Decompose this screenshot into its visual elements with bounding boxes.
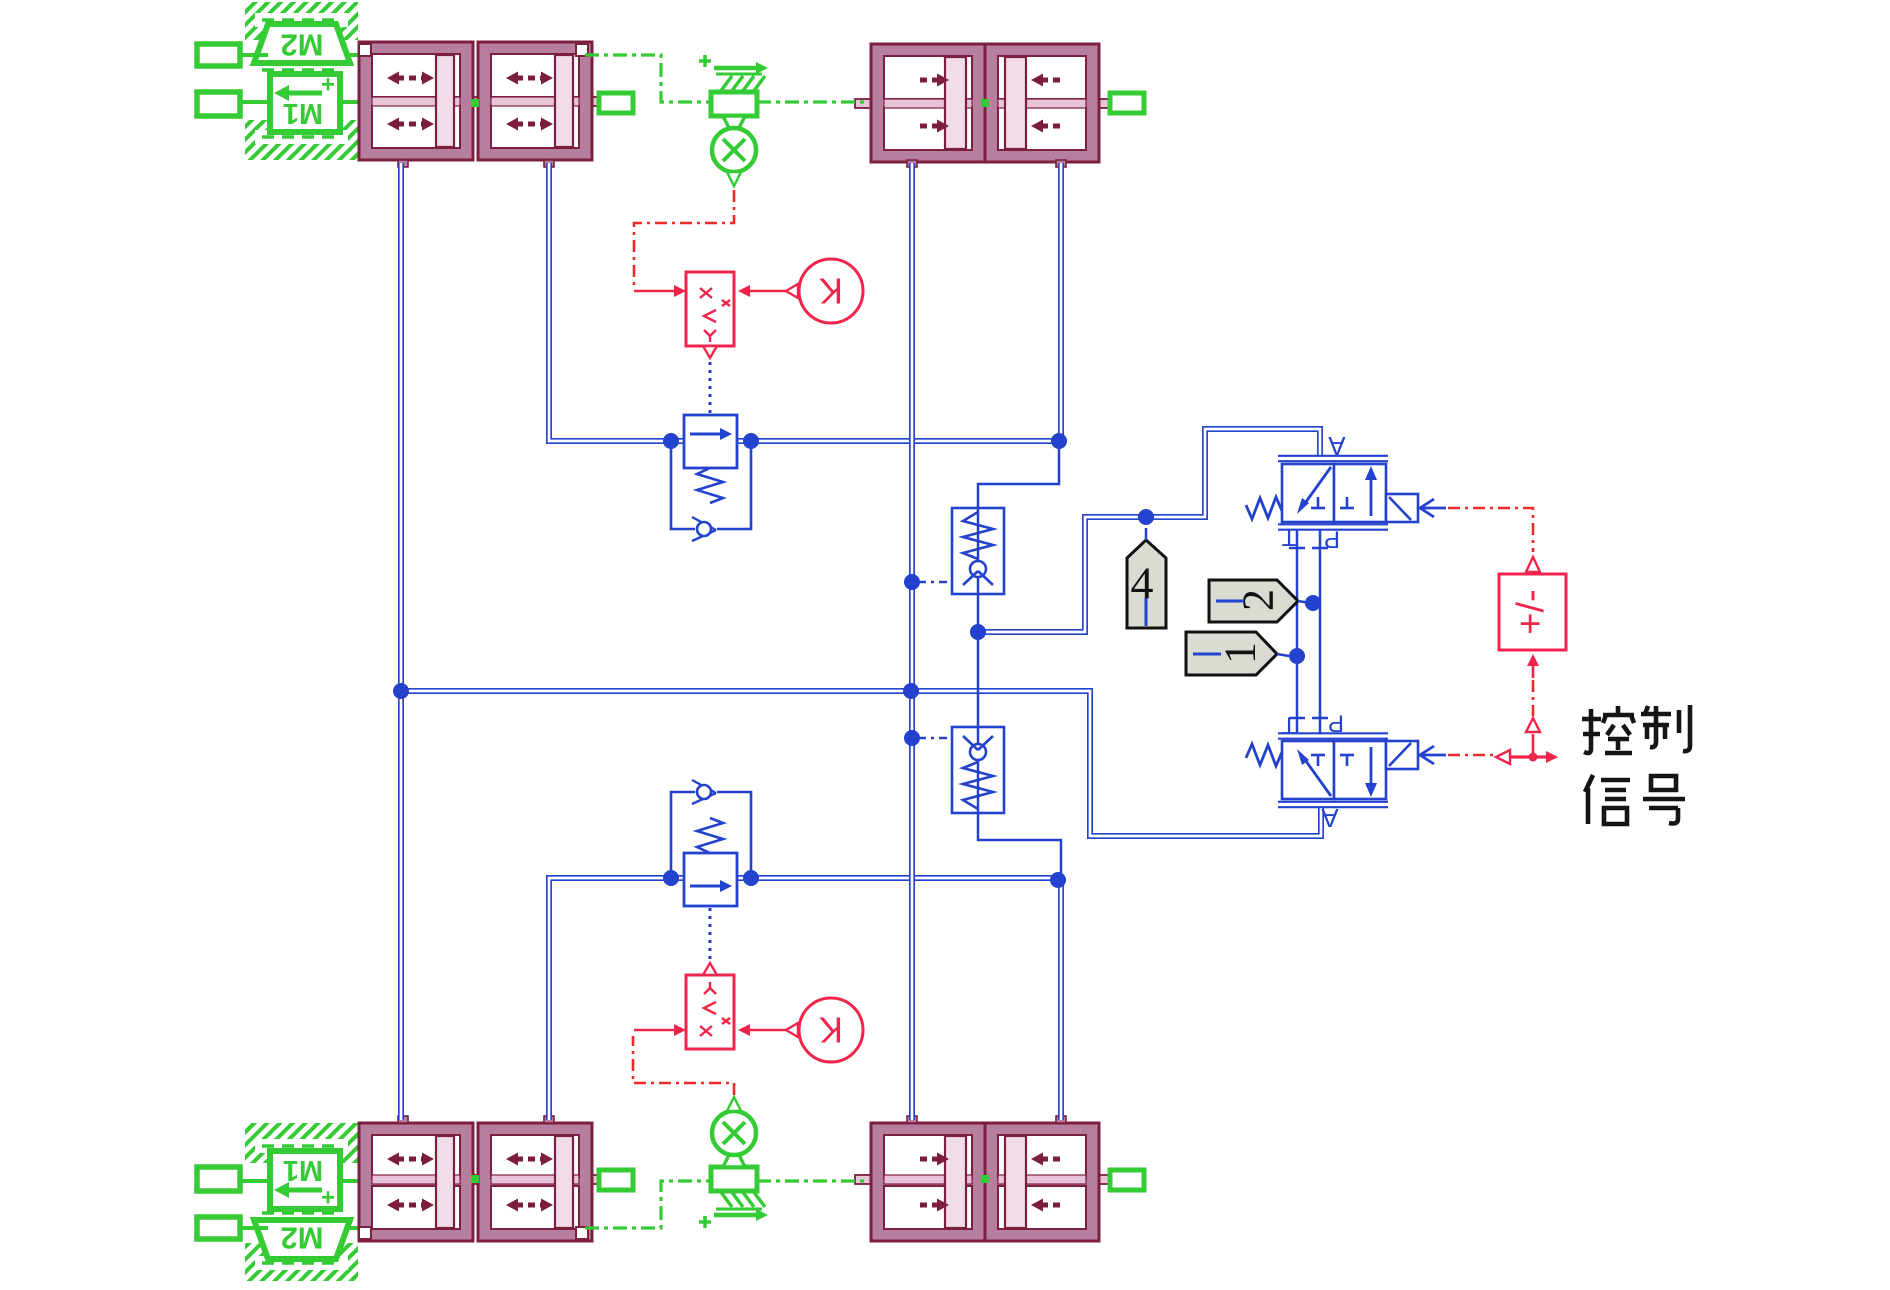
piston	[436, 55, 454, 147]
flow arrows	[397, 1203, 424, 1208]
pilot line (lower)	[918, 737, 950, 740]
svg-text:+: +	[321, 72, 335, 99]
junction relief-top L	[663, 433, 679, 449]
transducer body	[711, 92, 757, 116]
svg-text:M2: M2	[280, 1221, 323, 1256]
wire: main center line to bottom valve A	[401, 691, 1321, 836]
check valve (bottom bypass)	[692, 780, 716, 793]
svg-text:1: 1	[1216, 642, 1265, 664]
piston rod	[365, 1175, 600, 1184]
junction pilot-bottom	[904, 730, 920, 746]
piston	[436, 1136, 454, 1228]
svg-text:K: K	[819, 1010, 843, 1051]
tag 2	[1209, 580, 1298, 622]
junction tag1	[1289, 648, 1305, 664]
check ball (lower)	[970, 744, 986, 760]
junction pilot-top	[904, 574, 920, 590]
check ball (upper)	[970, 561, 986, 577]
flow arrow	[920, 1203, 939, 1208]
port bars	[1289, 547, 1305, 550]
mass block M1/M2 lower-left	[245, 1243, 358, 1281]
cylinder body	[478, 42, 592, 160]
flow arrow	[920, 124, 939, 129]
wire: TR right cylinder down to relief line dot	[1058, 163, 1064, 441]
signal arrow into block bottom	[1532, 666, 1535, 678]
piston rod	[855, 1175, 1112, 1184]
pilot check component (lower) body	[952, 727, 1004, 813]
wire: T rail between valves	[1296, 529, 1299, 734]
pilot dotted line (top)	[709, 354, 712, 413]
wire: bottom relief line left + BL right cylinder	[549, 878, 671, 1120]
pilot line (upper)	[918, 581, 950, 584]
flow arrows	[516, 1203, 543, 1208]
spring (upper pilot check)	[963, 512, 993, 559]
flow arrow	[1041, 78, 1060, 83]
cylinder port stubs	[398, 160, 408, 167]
velocity source/transducer (top)	[699, 59, 711, 63]
wire: BR right cylinder up to relief line dot	[1058, 880, 1064, 1120]
check valve bypass loop (bottom relief)	[671, 792, 695, 878]
K gain link (bottom)	[748, 1029, 786, 1032]
mechanical link (top, cylinder port to transducer)	[585, 55, 709, 102]
cylinder body	[985, 44, 1099, 162]
piston	[945, 57, 966, 149]
port box	[197, 44, 240, 66]
junction relief-bot L	[663, 870, 679, 886]
relief valve (top) body	[684, 415, 737, 468]
valve spring (top)	[1246, 497, 1282, 519]
mechanical link (bottom, transducer to right pair rod)	[757, 1179, 869, 1182]
svg-text:4: 4	[1131, 558, 1154, 609]
svg-text:+/-: +/-	[1510, 589, 1552, 634]
mechanical link (top, transducer to right pair rod)	[757, 100, 869, 103]
wire: chain through pilot check components	[978, 441, 1061, 880]
wire: TR left cylinder column x912	[909, 163, 915, 1120]
pilot check component (upper) body	[952, 508, 1004, 594]
solenoid input arrow (top)	[1422, 507, 1446, 510]
valve spring (bottom)	[1246, 744, 1282, 766]
signal converter block (bottom)	[686, 975, 734, 1049]
flow arrows	[516, 1157, 543, 1162]
control signal tee	[1508, 755, 1556, 758]
valve interior arrows (bottom)	[1303, 757, 1331, 796]
velocity source/transducer (bottom)	[699, 1220, 711, 1224]
rod port box upper-left	[599, 93, 633, 113]
wire: relief left to valve	[671, 438, 684, 444]
mass block M1/M2 upper-left	[245, 2, 358, 40]
tag 4	[1127, 540, 1166, 628]
junction relief-top R	[743, 433, 759, 449]
cylinder body	[359, 42, 473, 160]
K gain circle (top)	[799, 259, 863, 323]
wire: P rail between valves	[1319, 529, 1322, 734]
junction tag2	[1305, 595, 1321, 611]
piston	[1005, 1136, 1026, 1228]
X circle	[712, 1111, 756, 1155]
flow arrow	[920, 1157, 939, 1162]
check valve (top bypass)	[692, 517, 716, 530]
tag 1	[1186, 632, 1277, 675]
relief valve (bottom) spring	[697, 818, 723, 853]
pilot dotted line (bottom)	[709, 908, 712, 967]
flow arrows	[516, 76, 543, 81]
port box	[197, 92, 240, 116]
svg-text:M1: M1	[283, 97, 323, 129]
piston rod	[365, 97, 600, 106]
solenoid input arrow (bottom)	[1422, 754, 1446, 757]
svg-text:K: K	[819, 271, 843, 312]
signal line (tee to bottom solenoid)	[1448, 754, 1494, 757]
wire: bottom relief line right section	[737, 875, 1058, 881]
junction relief-bot R	[743, 870, 759, 886]
flow arrow	[1041, 1157, 1060, 1162]
3/2 directional valve (top) body	[1282, 464, 1334, 522]
flow arrow	[1041, 124, 1060, 129]
K gain link (top)	[748, 290, 786, 293]
solenoid (top)	[1386, 494, 1418, 522]
solenoid (bottom)	[1386, 741, 1418, 769]
signal line (top solenoid to +/- block)	[1448, 508, 1533, 552]
cylinder corner port (lower-left pair, to mass)	[359, 1227, 371, 1239]
flow arrow	[920, 78, 939, 83]
flow arrows	[397, 122, 424, 127]
flow arrows	[397, 76, 424, 81]
signal converter block (top)	[686, 272, 734, 346]
svg-text:+: +	[321, 1185, 335, 1212]
flow arrow	[1041, 1203, 1060, 1208]
junction top-right	[1051, 433, 1067, 449]
signal line (top X to converter)	[634, 190, 734, 285]
rod link ticks	[471, 99, 479, 107]
svg-text:P: P	[1328, 710, 1344, 737]
wire: top relief line right section	[737, 438, 1059, 444]
svg-text:A: A	[1321, 803, 1339, 833]
cylinder body	[871, 1123, 985, 1241]
rod port box upper-right	[1110, 93, 1144, 113]
svg-text:T: T	[1281, 712, 1296, 739]
cylinder body	[478, 1123, 592, 1241]
spring (lower pilot check)	[963, 762, 993, 809]
X circle	[712, 128, 756, 172]
junction main/x912	[903, 683, 919, 699]
flow arrows	[397, 1157, 424, 1162]
cylinder body	[985, 1123, 1099, 1241]
mechanical link (bottom, cylinder port to transducer)	[585, 1181, 709, 1228]
svg-text:T: T	[1281, 524, 1296, 551]
cylinder corner port (upper-left pair, to mass)	[359, 44, 371, 56]
piston	[1005, 57, 1026, 149]
signal line (bottom X to converter)	[633, 1036, 734, 1095]
input arrow left (bottom)	[634, 1029, 674, 1032]
valve rails (bottom)	[1278, 801, 1388, 809]
wire: TL right cylinder down to top relief line	[549, 163, 671, 441]
cylinder body	[359, 1123, 473, 1241]
piston	[555, 1136, 573, 1228]
rod port box lower-left	[599, 1170, 633, 1190]
signal line (tee to block)	[1532, 680, 1535, 716]
flow arrows	[516, 122, 543, 127]
svg-text:M2: M2	[280, 28, 323, 63]
caption: control signal (Chinese)	[1582, 705, 1690, 824]
piston	[555, 55, 573, 147]
relief valve (top) spring	[697, 468, 723, 503]
cylinder corner port (upper-left pair, right cylinder)	[576, 44, 588, 56]
port box	[197, 1167, 240, 1191]
transducer body	[711, 1167, 757, 1191]
wire: branch between accumulators to top valve A	[985, 429, 1320, 632]
+/- inverter block	[1526, 557, 1540, 572]
piston	[945, 1136, 966, 1228]
valve interior arrows (top)	[1303, 467, 1331, 506]
wire: left column x401	[398, 163, 404, 1120]
rod port box lower-right	[1110, 1170, 1144, 1190]
svg-text:A: A	[1328, 431, 1346, 461]
piston rod	[855, 99, 1112, 108]
input arrow left (top)	[634, 290, 674, 293]
junction left/main	[393, 683, 409, 699]
junction inter-accumulator	[970, 624, 986, 640]
svg-text:M1: M1	[283, 1154, 323, 1186]
wire: relief valve bottom left connect	[671, 875, 684, 881]
3/2 directional valve (bottom) body	[1282, 741, 1334, 799]
cylinder body	[871, 44, 985, 162]
port box	[197, 1217, 240, 1239]
junction bottom-right	[1050, 872, 1066, 888]
K gain circle (bottom)	[799, 998, 863, 1062]
valve rails (top)	[1278, 455, 1388, 463]
check valve bypass loop (top relief)	[671, 441, 695, 529]
cylinder corner port (lower-left pair, right cylinder)	[576, 1227, 588, 1239]
relief valve (bottom) body	[684, 853, 737, 906]
junction tag4	[1138, 509, 1154, 525]
